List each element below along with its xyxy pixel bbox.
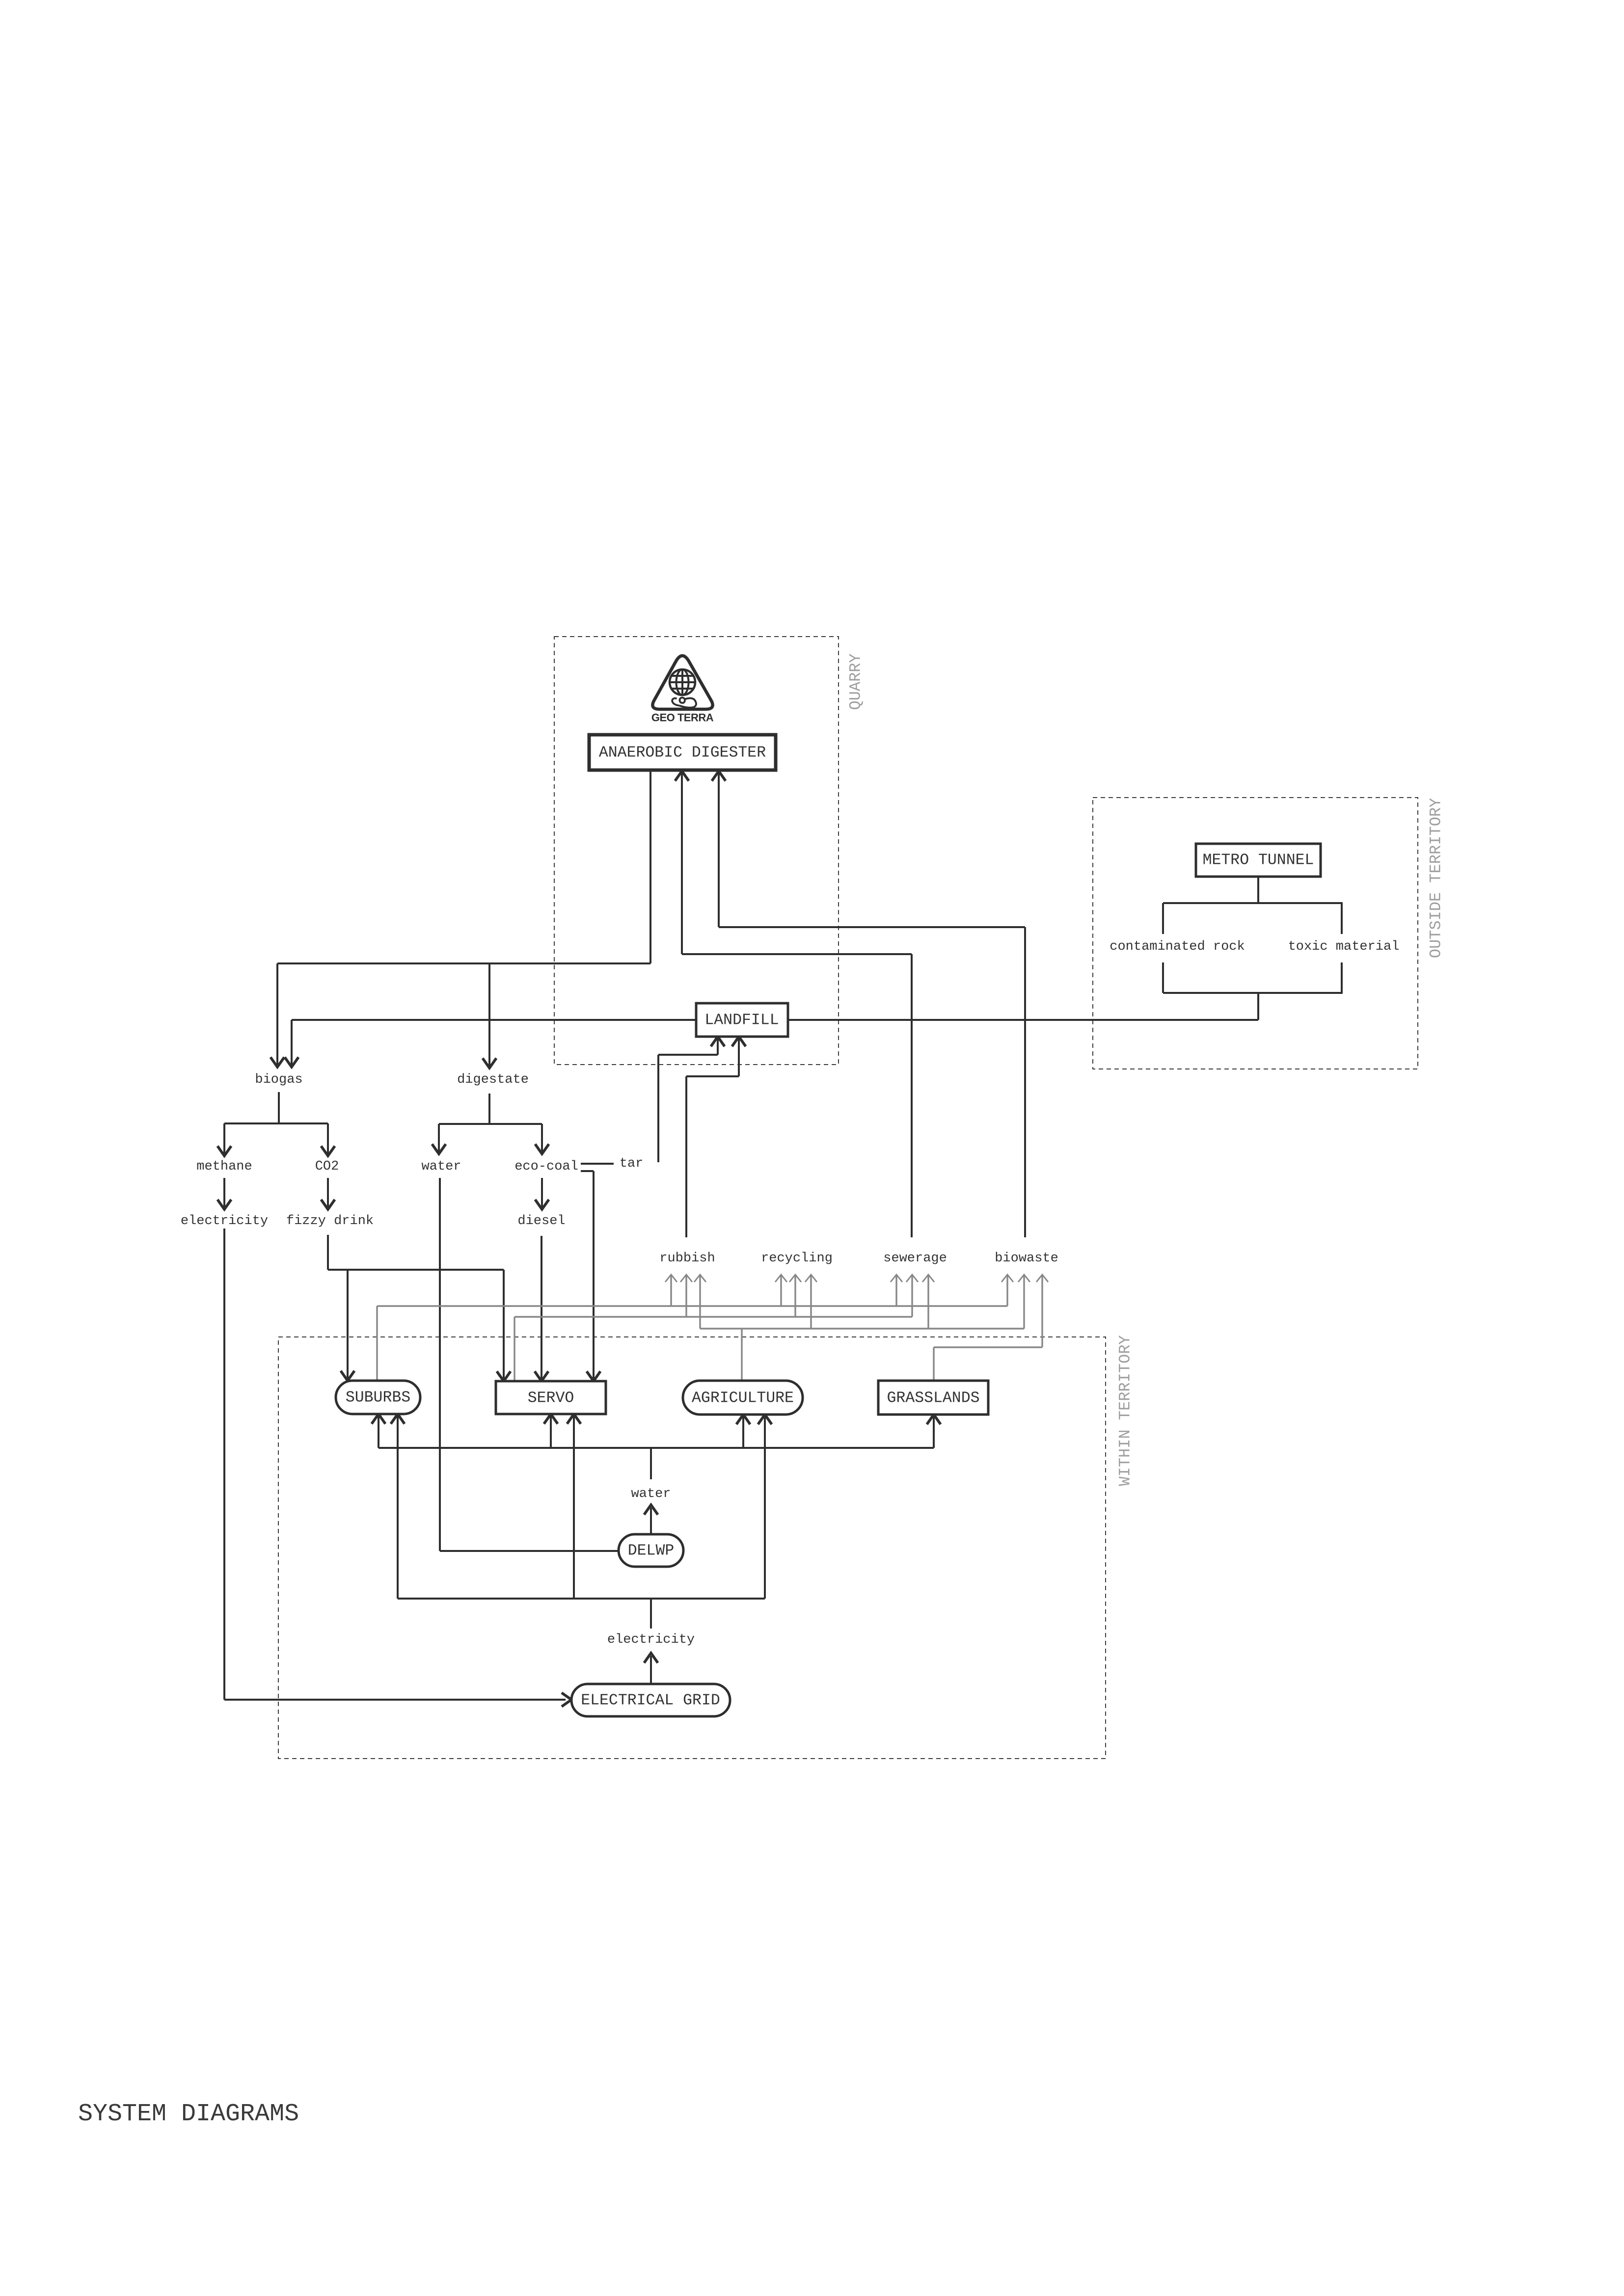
svg-text:biogas: biogas: [255, 1072, 302, 1087]
svg-text:SERVO: SERVO: [528, 1390, 574, 1407]
svg-text:SYSTEM DIAGRAMS: SYSTEM DIAGRAMS: [78, 2100, 299, 2128]
svg-text:ELECTRICAL GRID: ELECTRICAL GRID: [581, 1692, 720, 1709]
svg-text:biowaste: biowaste: [995, 1251, 1058, 1266]
svg-text:sewerage: sewerage: [883, 1251, 947, 1266]
svg-text:GRASSLANDS: GRASSLANDS: [887, 1390, 979, 1407]
svg-text:METRO TUNNEL: METRO TUNNEL: [1203, 852, 1314, 869]
svg-text:electricity: electricity: [607, 1632, 695, 1647]
svg-text:toxic material: toxic material: [1288, 939, 1400, 954]
svg-text:fizzy drink: fizzy drink: [286, 1214, 374, 1228]
svg-text:recycling: recycling: [761, 1251, 833, 1266]
svg-text:eco-coal: eco-coal: [514, 1159, 578, 1174]
svg-text:GEO TERRA: GEO TERRA: [651, 712, 714, 724]
svg-text:LANDFILL: LANDFILL: [704, 1012, 779, 1029]
svg-text:AGRICULTURE: AGRICULTURE: [692, 1390, 794, 1407]
svg-text:rubbish: rubbish: [659, 1251, 715, 1266]
svg-text:WITHIN TERRITORY: WITHIN TERRITORY: [1116, 1335, 1135, 1486]
svg-text:contaminated rock: contaminated rock: [1110, 939, 1245, 954]
svg-text:electricity: electricity: [181, 1214, 268, 1228]
svg-text:ANAEROBIC DIGESTER: ANAEROBIC DIGESTER: [599, 745, 766, 762]
svg-text:QUARRY: QUARRY: [847, 653, 865, 710]
svg-text:CO2: CO2: [315, 1159, 339, 1174]
svg-text:tar: tar: [620, 1156, 644, 1171]
svg-text:water: water: [631, 1487, 671, 1501]
svg-text:digestate: digestate: [457, 1072, 529, 1087]
svg-text:diesel: diesel: [517, 1214, 565, 1228]
svg-text:DELWP: DELWP: [628, 1543, 675, 1560]
svg-text:water: water: [421, 1159, 461, 1174]
svg-text:methane: methane: [196, 1159, 252, 1174]
svg-text:SUBURBS: SUBURBS: [346, 1389, 410, 1407]
svg-text:OUTSIDE TERRITORY: OUTSIDE TERRITORY: [1427, 798, 1445, 958]
